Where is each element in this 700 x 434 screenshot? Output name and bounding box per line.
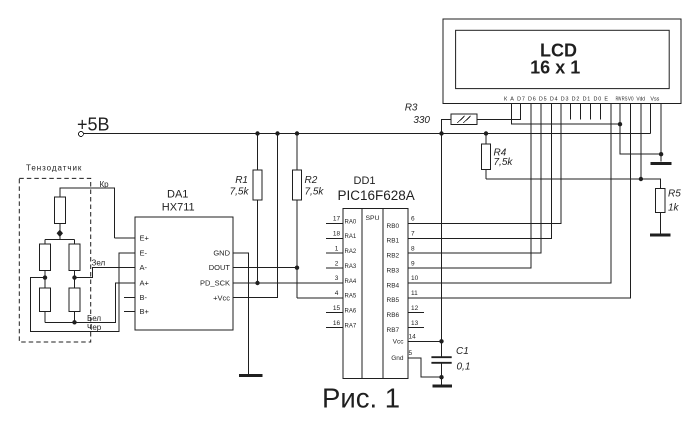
wire DOUT jog to RA5 xyxy=(297,297,343,299)
svg-text:6: 6 xyxy=(411,216,415,223)
PIC RB labels xyxy=(387,223,405,362)
node rail-R4 xyxy=(484,131,488,135)
svg-text:Vcc: Vcc xyxy=(393,339,405,346)
svg-text:R2: R2 xyxy=(305,175,318,186)
IC DA1 HX711 xyxy=(135,189,233,330)
wire LCD D1 stub xyxy=(590,104,592,120)
bridge resistor low-left xyxy=(40,288,51,322)
wire LCD RW pin to ground row xyxy=(620,104,661,155)
svg-text:E+: E+ xyxy=(140,234,150,243)
svg-text:Бел: Бел xyxy=(87,314,101,323)
bridge resistor top xyxy=(54,188,114,240)
svg-text:C1: C1 xyxy=(456,346,469,357)
node Gnd-C1 xyxy=(439,375,443,379)
svg-text:PIC16F628A: PIC16F628A xyxy=(338,188,415,203)
svg-text:GND: GND xyxy=(213,249,230,258)
svg-text:Кр: Кр xyxy=(100,180,110,189)
IC DD1 PIC16F628A xyxy=(338,175,415,379)
wire HX711 GND to ground xyxy=(233,253,248,374)
node V0-R4-R5 xyxy=(639,177,643,181)
PIC left pin numbers xyxy=(333,216,341,327)
svg-text:8: 8 xyxy=(411,245,415,252)
ground under HX711 xyxy=(239,374,263,377)
node bridge left tap xyxy=(43,275,47,279)
svg-text:13: 13 xyxy=(411,320,419,327)
svg-text:Vss: Vss xyxy=(650,96,659,102)
svg-text:+5В: +5В xyxy=(77,115,110,135)
bridge resistor low-right xyxy=(69,288,80,322)
svg-text:17: 17 xyxy=(333,216,341,223)
svg-text:A-: A- xyxy=(140,263,148,272)
ground under Vss xyxy=(650,162,671,165)
wire +5V rail xyxy=(83,133,650,135)
svg-text:1k: 1k xyxy=(668,203,680,214)
wire LCD V0 pin xyxy=(640,104,642,180)
svg-text:RA7: RA7 xyxy=(345,323,357,329)
svg-text:11: 11 xyxy=(411,290,418,297)
svg-text:К А D7 D6 D5 D4 D3 D2 D1 D0 Е: К А D7 D6 D5 D4 D3 D2 D1 D0 Е xyxy=(504,96,608,102)
svg-text:RB5: RB5 xyxy=(387,297,400,304)
svg-text:A+: A+ xyxy=(140,279,150,288)
ground under R5 xyxy=(650,233,671,236)
LCD display xyxy=(443,19,681,104)
svg-text:RA1: RA1 xyxy=(345,234,357,240)
PIC RA labels xyxy=(345,219,357,329)
svg-text:Vdd: Vdd xyxy=(636,96,645,102)
svg-text:RB3: RB3 xyxy=(387,267,400,274)
node rail-R2 xyxy=(295,131,299,135)
wire RB2 to LCD D6 xyxy=(408,104,541,254)
svg-text:DOUT: DOUT xyxy=(209,263,231,272)
svg-text:RA5: RA5 xyxy=(345,294,357,300)
svg-text:RA4: RA4 xyxy=(345,279,357,285)
svg-text:DD1: DD1 xyxy=(354,175,376,187)
wire RB6 stub xyxy=(408,312,424,314)
bridge resistor mid-left xyxy=(40,244,51,288)
svg-text:Рис. 1: Рис. 1 xyxy=(322,383,400,414)
PIC left pin stubs RA0,RA1,RA2,RA3,RA6,RA7 xyxy=(326,224,343,328)
svg-text:0,1: 0,1 xyxy=(457,362,471,373)
wire LCD Vss pin xyxy=(660,104,662,162)
svg-text:E-: E- xyxy=(140,249,148,258)
svg-text:B+: B+ xyxy=(140,307,150,316)
node rail-R3/VccPIC xyxy=(439,131,443,135)
svg-text:R3: R3 xyxy=(405,103,418,114)
ground under C1 xyxy=(433,385,453,388)
wire LCD D0 stub xyxy=(600,104,602,120)
svg-text:RB4: RB4 xyxy=(387,282,400,289)
wire PIC Vcc xyxy=(408,340,442,342)
wire LCD Vdd pin to rail xyxy=(650,104,652,134)
svg-text:16 x 1: 16 x 1 xyxy=(530,58,580,78)
wire DOUT row xyxy=(233,267,297,269)
svg-text:RB6: RB6 xyxy=(387,312,400,319)
resistor R4 xyxy=(482,134,641,180)
svg-text:4: 4 xyxy=(335,290,339,297)
svg-text:RB0: RB0 xyxy=(387,223,400,230)
svg-text:RB2: RB2 xyxy=(387,253,400,260)
wire Чер: left tap to E- xyxy=(31,253,135,331)
svg-text:RA6: RA6 xyxy=(345,309,357,315)
svg-text:15: 15 xyxy=(333,305,341,312)
svg-text:Чер: Чер xyxy=(87,323,102,332)
svg-text:10: 10 xyxy=(411,275,419,282)
node bridge top diamond xyxy=(57,230,63,237)
svg-text:3: 3 xyxy=(335,275,339,282)
capacitor C1 xyxy=(431,346,470,373)
wire RB0 to LCD D4 xyxy=(408,104,561,224)
svg-text:DA1: DA1 xyxy=(167,189,188,201)
load cell dashed box xyxy=(19,164,90,343)
wire PIC Gnd xyxy=(408,358,442,377)
wire +Vcc to rail xyxy=(233,134,278,298)
wire RB5 to LCD RS xyxy=(408,104,631,298)
svg-text:7,5k: 7,5k xyxy=(305,187,325,198)
wire LCD D3 stub xyxy=(570,104,572,120)
svg-text:9: 9 xyxy=(411,260,415,267)
svg-text:HX711: HX711 xyxy=(162,201,195,213)
bridge resistor mid-right xyxy=(69,244,80,288)
wire HX711 B- stub xyxy=(124,297,135,299)
svg-text:RS: RS xyxy=(622,96,628,102)
svg-text:2: 2 xyxy=(335,260,339,267)
svg-text:Тензодатчик: Тензодатчик xyxy=(26,164,82,173)
svg-text:5: 5 xyxy=(409,350,413,357)
svg-text:+Vcc: +Vcc xyxy=(213,293,230,302)
node Vcc-C1 xyxy=(439,339,443,343)
svg-text:R1: R1 xyxy=(235,175,248,186)
svg-text:18: 18 xyxy=(333,231,341,238)
PIC right pin numbers xyxy=(409,216,419,357)
wire RB4 to LCD E xyxy=(408,104,611,284)
svg-text:R5: R5 xyxy=(668,189,681,200)
svg-text:12: 12 xyxy=(411,305,419,312)
svg-text:PD_SCK: PD_SCK xyxy=(200,279,230,288)
svg-text:Gnd: Gnd xyxy=(391,355,404,362)
svg-text:330: 330 xyxy=(413,115,430,126)
wire HX711 B+ stub xyxy=(124,311,135,313)
node К-RW xyxy=(618,122,622,126)
node rail-R1 xyxy=(255,131,259,135)
wire Зел: right tap to A- xyxy=(75,268,136,278)
svg-text:7: 7 xyxy=(411,231,415,238)
node bridge bottom xyxy=(72,320,76,324)
wire +5V down to C1 xyxy=(441,134,443,385)
node bridge right tap xyxy=(72,275,76,279)
wire Бел: bottom node to A+ xyxy=(45,283,135,322)
svg-text:Зел: Зел xyxy=(92,258,106,267)
svg-text:V0: V0 xyxy=(628,96,634,102)
svg-text:RA3: RA3 xyxy=(345,264,357,270)
power terminal +5V xyxy=(77,115,110,137)
svg-text:RB1: RB1 xyxy=(387,238,400,245)
svg-text:B-: B- xyxy=(140,293,148,302)
svg-text:RB7: RB7 xyxy=(387,327,400,334)
wire bridge T-bar xyxy=(45,240,75,244)
resistor R2 xyxy=(293,134,325,298)
wire V0 node to R5 xyxy=(641,179,660,188)
svg-text:SPU: SPU xyxy=(366,215,380,222)
node R1-PD_SCK xyxy=(255,281,259,285)
wire LCD D2 stub xyxy=(580,104,582,120)
svg-text:RA2: RA2 xyxy=(345,249,357,255)
svg-text:7,5k: 7,5k xyxy=(494,157,514,168)
wire RB3 to LCD D7 xyxy=(408,104,531,269)
svg-text:RA0: RA0 xyxy=(345,219,357,225)
wire RB7 stub xyxy=(408,327,424,329)
wire LCD К pin xyxy=(511,104,620,125)
resistor R5 xyxy=(656,188,682,233)
wire PD_SCK row to RA4 xyxy=(233,282,343,284)
svg-text:7,5k: 7,5k xyxy=(230,187,250,198)
node rail-Vcc(HX711) xyxy=(275,131,279,135)
svg-text:16: 16 xyxy=(333,320,341,327)
resistor R1 xyxy=(230,134,262,284)
svg-text:1: 1 xyxy=(335,245,339,252)
node R2-DOUT xyxy=(295,266,299,270)
node RW-Vss xyxy=(659,152,663,156)
wire Кр to E+ xyxy=(114,237,135,239)
svg-text:14: 14 xyxy=(409,334,417,341)
wire RB1 to LCD D5 xyxy=(408,104,552,239)
resistor R3 xyxy=(405,103,521,134)
